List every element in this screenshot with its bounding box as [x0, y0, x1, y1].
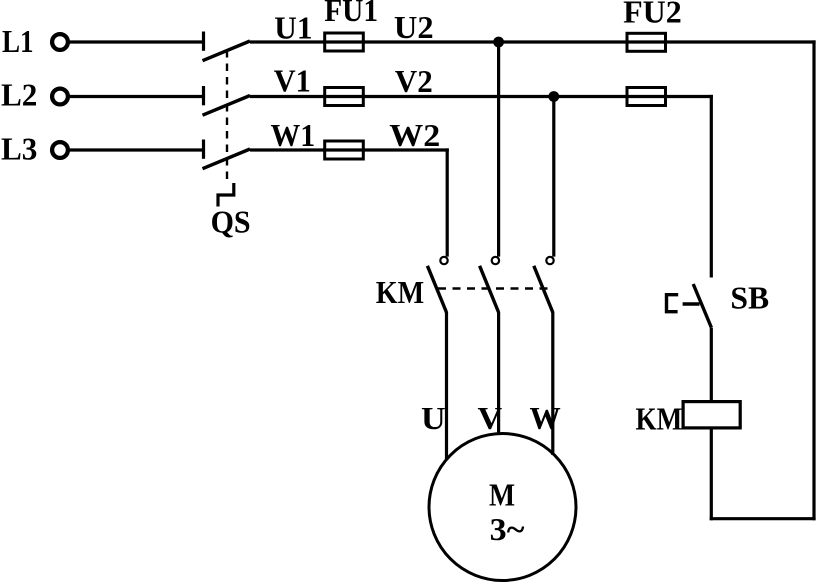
svg-text:W1: W1 — [271, 117, 316, 153]
svg-text:L2: L2 — [1, 77, 37, 113]
contactor KM contact 1 fixed terminal — [440, 257, 447, 264]
wire W1/W2: QS to down turn through FU1 — [250, 148, 449, 151]
wire KM contact 1 to motor U — [445, 312, 448, 459]
motor M circle — [429, 434, 576, 581]
wire V2 node down to KM contact 3 — [552, 97, 555, 257]
terminal L3 — [52, 142, 68, 158]
svg-text:V1: V1 — [274, 63, 311, 99]
wire U1/U2: QS to right corner through FU1 and FU2 — [250, 40, 816, 43]
svg-text:U: U — [421, 400, 446, 436]
svg-text:U1: U1 — [274, 9, 312, 45]
fuse FU2 pole 1 — [627, 33, 666, 51]
wire right edge: U2 corner down — [812, 40, 815, 520]
terminal L1 — [52, 34, 68, 50]
switch QS pole 2 fixed contact — [202, 86, 205, 105]
contactor KM contact 2 fixed terminal — [492, 257, 499, 264]
wire bottom: right edge to below coil — [710, 517, 816, 520]
switch QS handle — [218, 183, 234, 207]
wire V1/V2: QS to right turn through FU1 and FU2 — [250, 95, 713, 98]
wire V2 turn down to button SB — [710, 95, 713, 278]
switch QS mechanical link (dashed) — [226, 50, 228, 184]
wire KM contact 2 to motor V — [497, 312, 500, 434]
svg-text:M: M — [489, 476, 515, 512]
button SB actuator rod — [683, 302, 700, 305]
switch QS pole 1 blade — [203, 41, 251, 61]
button SB blade — [693, 284, 711, 328]
switch QS pole 3 blade — [203, 149, 251, 169]
contactor KM contact 2 blade — [480, 266, 499, 313]
switch QS pole 1 fixed contact — [202, 32, 205, 51]
node on V2 line — [548, 91, 559, 102]
svg-text:KM: KM — [376, 274, 424, 310]
contactor KM contact 1 blade — [427, 266, 446, 313]
switch QS pole 3 fixed contact — [202, 140, 205, 159]
wire SB to coil KM — [710, 328, 713, 402]
svg-text:U2: U2 — [394, 9, 434, 45]
svg-text:W2: W2 — [389, 117, 440, 153]
svg-text:L3: L3 — [1, 131, 37, 167]
fuse FU1 pole 1 — [325, 33, 364, 51]
wire L2 to QS pole 2 — [70, 95, 204, 98]
wire coil KM to bottom — [710, 428, 713, 520]
contactor KM mechanical link (dashed) — [438, 287, 548, 289]
fuse FU1 pole 3 — [325, 141, 364, 159]
fuse FU2 pole 2 — [627, 88, 666, 106]
wire L3 to QS pole 3 — [70, 148, 204, 151]
fuse FU1 pole 2 — [325, 88, 364, 106]
svg-text:QS: QS — [211, 204, 251, 240]
svg-text:FU2: FU2 — [623, 0, 682, 29]
wire W2 down to KM contact 1 — [446, 148, 449, 256]
switch QS pole 2 blade — [203, 96, 251, 116]
contactor KM contact 3 fixed terminal — [546, 257, 553, 264]
contactor KM contact 3 blade — [534, 266, 553, 313]
coil KM — [683, 402, 740, 428]
wire L1 to QS pole 1 — [70, 40, 204, 43]
node on U2 line — [493, 37, 504, 48]
wire U2 node down to KM contact 2 — [497, 42, 500, 257]
button SB actuator bracket — [667, 295, 679, 312]
svg-text:KM: KM — [636, 400, 683, 436]
wire KM contact 3 to motor W — [551, 312, 554, 455]
svg-text:L1: L1 — [2, 23, 34, 59]
svg-text:W: W — [530, 400, 561, 436]
svg-text:V2: V2 — [395, 63, 433, 99]
svg-text:3~: 3~ — [490, 511, 525, 547]
svg-text:SB: SB — [730, 279, 769, 315]
svg-text:FU1: FU1 — [324, 0, 378, 28]
svg-text:V: V — [478, 400, 503, 436]
terminal L2 — [52, 89, 68, 105]
